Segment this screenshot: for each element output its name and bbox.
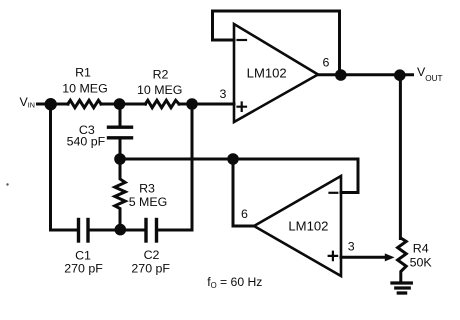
wire C1 to E [90, 229, 120, 232]
wire B to R2 [120, 103, 146, 106]
node output junction [335, 69, 347, 81]
wire R2 to C [179, 103, 192, 106]
resistor R3 [115, 159, 125, 230]
U1 plus sign [238, 103, 247, 111]
svg-text:LM102: LM102 [247, 66, 287, 81]
wire riser up to node C [191, 104, 194, 230]
wire U2 output stub [233, 159, 254, 226]
U2 plus sign [329, 252, 337, 260]
U1 minus sign [238, 39, 247, 41]
resistor R2 [145, 100, 179, 107]
potentiometer R4 [398, 238, 407, 283]
svg-text:5 MEG: 5 MEG [129, 195, 168, 209]
wire left rail A down [49, 104, 52, 230]
op-amp U2 [254, 176, 341, 276]
svg-text:R1: R1 [75, 66, 91, 80]
svg-text:540 pF: 540 pF [67, 134, 106, 148]
wire U2 plus input to wiper [341, 256, 387, 259]
svg-text:270 pF: 270 pF [131, 261, 170, 275]
svg-text:6: 6 [323, 55, 330, 69]
op-amp U1 [234, 24, 318, 122]
svg-text:10 MEG: 10 MEG [62, 82, 107, 96]
wire U1 feedback right vertical [338, 11, 341, 75]
wiper arrowhead [385, 253, 395, 261]
ground [392, 283, 411, 293]
svg-text:LM102: LM102 [288, 219, 328, 234]
node B [114, 98, 126, 110]
node F mid rail [227, 153, 239, 165]
wire C to U1 plus input [192, 103, 234, 106]
resistor R1 [68, 100, 101, 107]
wire mid rail D to feedback corner [120, 158, 358, 161]
svg-text:270 pF: 270 pF [64, 261, 103, 275]
wire bottom rail to C1 [51, 229, 78, 232]
wire C2 to riser [158, 229, 192, 232]
capacitor C2 [146, 220, 157, 242]
wire A to R1 [51, 103, 69, 106]
speck artifact [6, 183, 8, 185]
wire U1 output [318, 73, 413, 76]
wire R1 to B [101, 103, 120, 106]
node E [115, 224, 127, 236]
node D [114, 153, 126, 165]
svg-text:10 MEG: 10 MEG [137, 83, 182, 97]
svg-text:6: 6 [241, 207, 248, 221]
node C [186, 98, 198, 110]
capacitor C1 [79, 220, 89, 242]
wire U2 feedback down [341, 159, 358, 193]
svg-text:3: 3 [348, 239, 355, 253]
U2 minus sign [330, 192, 338, 194]
svg-text:50K: 50K [410, 255, 433, 269]
node A input junction [45, 98, 57, 110]
svg-text:R3: R3 [139, 182, 155, 196]
wire E to C2 [120, 229, 145, 232]
wire C3 to D [119, 139, 122, 159]
capacitor C3 [109, 127, 132, 138]
wire VIN stub [38, 103, 53, 106]
svg-text:R2: R2 [153, 68, 169, 82]
wire right rail down to R4 [399, 75, 402, 239]
svg-text:C2: C2 [144, 248, 160, 262]
wire B down to C3 [119, 104, 122, 126]
wire U1 minus stub [213, 39, 235, 42]
wire U1 feedback top rail [213, 10, 340, 13]
svg-text:R4: R4 [413, 242, 429, 256]
wire U1 feedback left vertical [211, 11, 214, 40]
node VOUT [394, 69, 406, 81]
svg-text:3: 3 [220, 87, 227, 101]
